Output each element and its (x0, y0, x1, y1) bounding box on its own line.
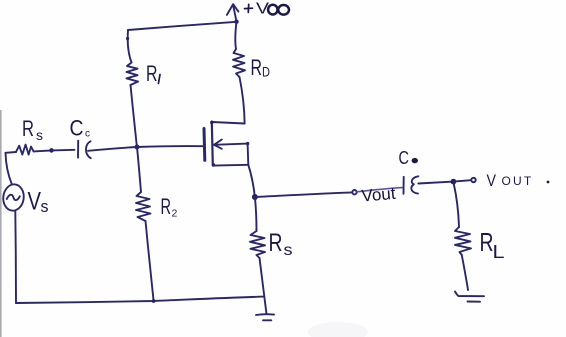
wire out node to terminal (453, 180, 471, 181)
resistor R2 (136, 192, 151, 221)
svg-text:D: D (262, 65, 270, 80)
wire RS to ground (260, 258, 267, 314)
label R2 (161, 194, 178, 220)
label Rs input (22, 116, 43, 143)
resistor RS (250, 231, 265, 258)
svg-text:C: C (70, 116, 84, 141)
node output terminal 2 (471, 178, 475, 182)
svg-text:s: s (36, 128, 43, 143)
wire top rail (128, 22, 237, 30)
wire gate horizontal (137, 145, 204, 148)
svg-text:R: R (22, 116, 34, 141)
VDD arrow (227, 4, 239, 21)
wire out node to RL (454, 184, 459, 227)
svg-text:2: 2 (172, 208, 178, 220)
resistor RL (455, 227, 471, 255)
wire gate node to R2 (137, 147, 141, 192)
label Cc (70, 116, 91, 141)
capacitor Cc left plate (77, 141, 79, 158)
capacitor Co left plate (403, 177, 405, 194)
svg-text:Vout: Vout (361, 184, 397, 206)
ground right (455, 292, 484, 302)
wire through Vout scribble (357, 188, 403, 192)
wire Vs to bottom rail (14, 211, 17, 303)
node VDD junction (234, 20, 238, 24)
svg-text:V: V (28, 188, 42, 216)
label RD (251, 55, 271, 80)
mosfet channel bar (212, 122, 213, 166)
source Vs (2, 183, 25, 212)
svg-text:s: s (284, 242, 293, 259)
mosfet body arrow (214, 140, 248, 149)
resistor RD (233, 49, 245, 77)
wire Co to out node (418, 182, 453, 184)
node source junction (252, 194, 258, 200)
node out junction (451, 179, 457, 185)
svg-text:R: R (146, 61, 158, 86)
wire R1 to gate node (131, 85, 137, 147)
node body corner blob (246, 142, 249, 145)
wire source node to RS (255, 197, 257, 231)
svg-text:R: R (269, 229, 283, 257)
svg-text:R: R (480, 227, 494, 257)
wire bottom rail (16, 297, 264, 303)
wire resistor to node (34, 150, 52, 151)
svg-text:s: s (41, 197, 49, 216)
svg-text:R: R (251, 55, 263, 80)
ground center (256, 314, 274, 320)
wire input left (6, 151, 17, 154)
svg-text:L: L (493, 242, 505, 262)
label Co (399, 148, 418, 168)
svg-text:V: V (487, 172, 497, 190)
capacitor Cc right plate (86, 141, 91, 158)
label RL (480, 227, 505, 262)
label Vout scribble (361, 184, 397, 206)
wire body down (247, 144, 250, 165)
wire RD to drain (240, 77, 245, 124)
label VOUT (487, 172, 550, 190)
svg-text:R: R (161, 194, 172, 219)
wire source horizontal (213, 164, 248, 167)
label R1 (146, 61, 160, 86)
label Vs (28, 188, 49, 217)
wire drain horizontal (212, 122, 244, 124)
resistor R1 (127, 63, 139, 86)
wire VDD to R1 top (128, 30, 132, 63)
svg-text:OUT: OUT (502, 174, 534, 188)
label RS (269, 229, 293, 259)
label +VDD (245, 1, 290, 18)
node channel bottom blob (212, 163, 215, 166)
wire node to Cc (52, 149, 75, 152)
wire Cc to gate node (88, 147, 137, 151)
mosfet gate bar (203, 129, 207, 161)
wire source to output node (248, 165, 255, 197)
wire input down to Vs (6, 153, 12, 185)
svg-text:C: C (399, 148, 410, 168)
node input junction (49, 148, 54, 153)
source Vs tilde (7, 195, 20, 200)
node R2 bottom (152, 299, 156, 303)
node gate junction (135, 145, 140, 150)
wire RL to ground (462, 255, 468, 290)
wire output long (255, 192, 352, 197)
capacitor Co right plate (411, 176, 418, 193)
resistor Rs input (16, 145, 34, 155)
node output terminal 1 (352, 190, 356, 194)
node channel top blob (210, 121, 213, 124)
svg-text:c: c (85, 129, 90, 140)
wire VDD to RD top (235, 22, 236, 49)
node small blob R1 top (126, 37, 129, 40)
wire R2 to bottom rail (146, 221, 154, 301)
